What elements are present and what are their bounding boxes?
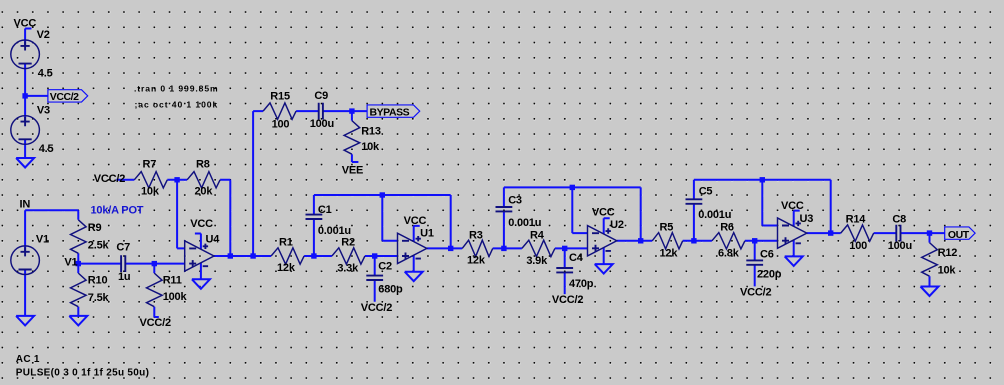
svg-text:V1: V1 (36, 234, 49, 246)
svg-text:R14: R14 (846, 214, 867, 226)
svg-text:OUT: OUT (948, 229, 970, 241)
svg-text:C6: C6 (760, 249, 774, 261)
svg-text:470p: 470p (569, 278, 594, 290)
svg-text:VCC/2: VCC/2 (740, 287, 771, 299)
svg-text:3.3k: 3.3k (337, 263, 359, 275)
svg-text:C3: C3 (508, 195, 522, 207)
svg-text:100u: 100u (310, 118, 334, 130)
svg-text:1u: 1u (118, 271, 130, 283)
svg-text:AC 1: AC 1 (16, 354, 40, 365)
svg-text:VCC: VCC (404, 215, 427, 227)
svg-text:R4: R4 (530, 230, 545, 242)
svg-text:R9: R9 (88, 222, 102, 234)
svg-text:R8: R8 (196, 159, 210, 171)
svg-text:100: 100 (272, 118, 290, 130)
svg-text:R3: R3 (469, 230, 483, 242)
svg-text:U2: U2 (610, 219, 624, 231)
svg-text:IN: IN (20, 199, 31, 211)
svg-text:R6: R6 (720, 222, 734, 234)
svg-text:VCC: VCC (14, 18, 37, 30)
svg-text:PULSE(0 3 0 1f 1f 25u 50u): PULSE(0 3 0 1f 1f 25u 50u) (16, 368, 149, 379)
svg-text:12k: 12k (467, 255, 486, 267)
svg-text:100: 100 (849, 240, 867, 252)
svg-text:680p: 680p (378, 284, 403, 296)
svg-text:R5: R5 (660, 222, 674, 234)
svg-text:C9: C9 (314, 90, 328, 102)
svg-text:0.001u: 0.001u (698, 209, 731, 221)
svg-text:BYPASS: BYPASS (370, 106, 410, 118)
svg-text:R11: R11 (163, 275, 182, 287)
svg-text:VCC/2: VCC/2 (140, 317, 171, 329)
svg-text:VCC: VCC (592, 207, 615, 219)
svg-text:VCC: VCC (781, 200, 804, 212)
svg-text:100k: 100k (163, 291, 188, 303)
svg-text:0.001u: 0.001u (318, 225, 351, 237)
svg-text:7.5k: 7.5k (88, 292, 110, 304)
svg-text:VEE: VEE (342, 164, 363, 176)
svg-text:U3: U3 (800, 213, 814, 225)
svg-text:V3: V3 (37, 105, 50, 117)
svg-text:U1: U1 (420, 228, 434, 240)
svg-text:C7: C7 (116, 242, 130, 254)
svg-text:2.5k: 2.5k (88, 240, 110, 252)
svg-text:VCC/2: VCC/2 (552, 294, 583, 306)
svg-text:4.5: 4.5 (39, 143, 54, 155)
svg-text:R2: R2 (341, 237, 355, 249)
svg-text:R13: R13 (361, 125, 381, 137)
svg-text:4.5: 4.5 (38, 67, 53, 79)
svg-text:20k: 20k (195, 186, 214, 198)
svg-text:10k: 10k (361, 141, 380, 153)
svg-text:10k: 10k (141, 186, 160, 198)
svg-text:;ac oct 40 1 100k: ;ac oct 40 1 100k (135, 100, 219, 110)
svg-text:C8: C8 (892, 214, 906, 226)
svg-text:0.001u: 0.001u (508, 217, 541, 229)
svg-text:.tran 0 1 999.85m: .tran 0 1 999.85m (134, 84, 219, 94)
svg-text:C2: C2 (378, 261, 392, 273)
svg-text:U4: U4 (206, 234, 221, 246)
svg-text:220p: 220p (757, 269, 782, 281)
svg-text:VCC/2: VCC/2 (94, 173, 125, 185)
svg-text:VCC: VCC (190, 218, 213, 230)
svg-text:12k: 12k (660, 248, 679, 260)
svg-text:C5: C5 (699, 186, 713, 198)
svg-text:V1: V1 (64, 256, 77, 268)
svg-text:12k: 12k (277, 262, 296, 274)
svg-text:C4: C4 (569, 252, 584, 264)
svg-text:R15: R15 (270, 90, 290, 102)
svg-text:R1: R1 (279, 237, 293, 249)
svg-text:VCC/2: VCC/2 (361, 302, 392, 314)
svg-text:R12: R12 (938, 247, 958, 259)
svg-text:VCC/2: VCC/2 (50, 91, 79, 103)
svg-text:R10: R10 (88, 275, 108, 287)
svg-text:10k: 10k (938, 265, 957, 277)
svg-text:R7: R7 (143, 159, 157, 171)
svg-text:V2: V2 (37, 29, 50, 41)
svg-text:6.8k: 6.8k (718, 248, 740, 260)
svg-text:C1: C1 (318, 204, 332, 216)
svg-text:10k/A POT: 10k/A POT (91, 205, 144, 217)
svg-text:3.9k: 3.9k (526, 255, 548, 267)
svg-text:100u: 100u (888, 240, 912, 252)
